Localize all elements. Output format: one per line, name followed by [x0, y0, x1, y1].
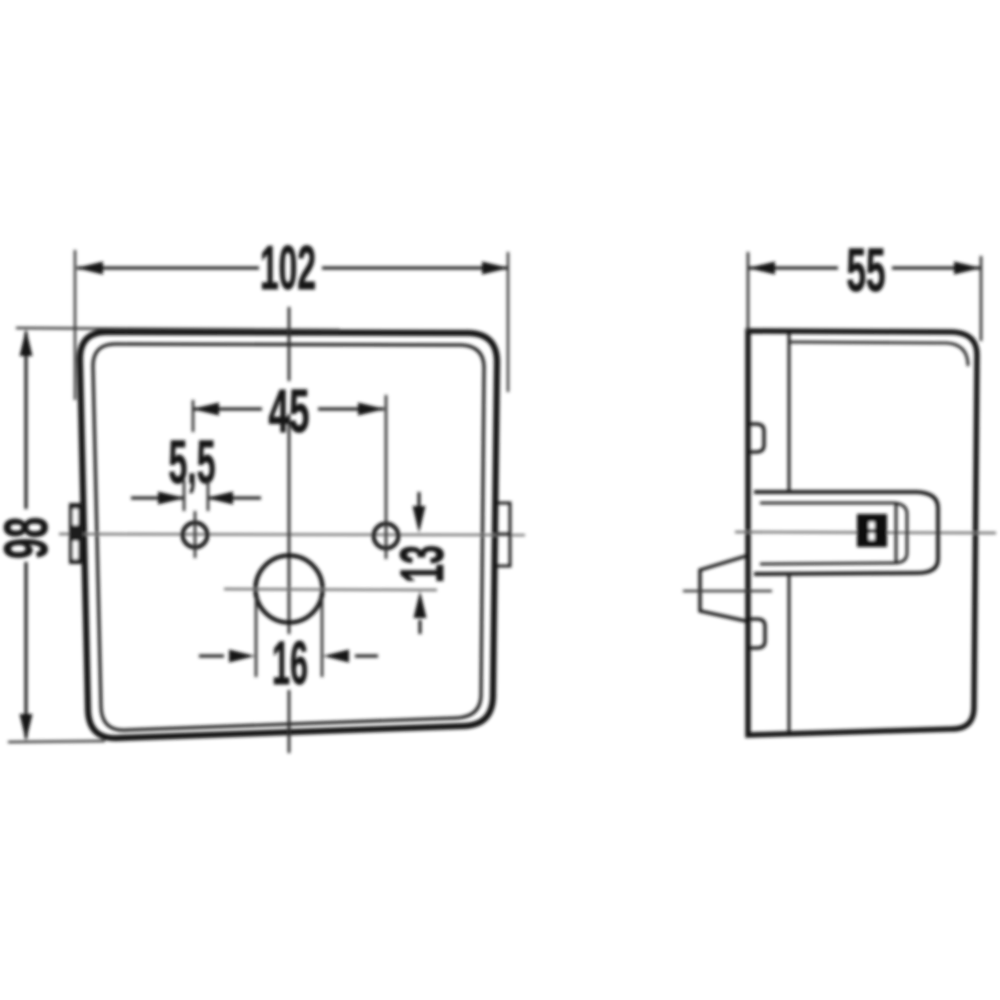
clip upper	[749, 424, 764, 452]
side view top inner line	[790, 342, 968, 366]
side view centerline	[735, 532, 996, 533]
dimension 16	[256, 598, 322, 677]
svg-text:45: 45	[269, 377, 310, 445]
bracket black square	[857, 514, 887, 547]
mounting bracket inner	[760, 503, 907, 564]
svg-text:55: 55	[847, 236, 886, 304]
dimension 45	[192, 400, 195, 432]
bulb hole horizontal centerline	[224, 589, 437, 590]
mounting bracket outer	[754, 492, 938, 574]
front view inner contour	[93, 344, 484, 730]
mounting hole right	[374, 524, 399, 549]
right edge tab	[497, 503, 510, 566]
dimension 55	[747, 252, 750, 331]
front view vertical centerline	[288, 307, 291, 753]
bulb hole	[256, 556, 323, 623]
plug centerline	[683, 590, 772, 593]
side view lens slab inner edge	[788, 333, 791, 733]
clip lower	[749, 619, 765, 648]
dimension 13	[417, 492, 420, 506]
svg-text:13: 13	[388, 545, 456, 583]
svg-text:102: 102	[260, 234, 316, 303]
mounting hole left	[183, 523, 208, 548]
left edge tab	[69, 503, 83, 564]
plug connector	[700, 556, 746, 621]
side view outer contour	[748, 331, 977, 735]
dimension 98	[16, 328, 340, 330]
svg-text:16: 16	[272, 629, 308, 697]
dimension 102	[75, 250, 508, 400]
front view outer contour	[80, 332, 497, 738]
svg-text:98: 98	[0, 517, 60, 559]
front view horizontal centerline	[59, 534, 525, 535]
